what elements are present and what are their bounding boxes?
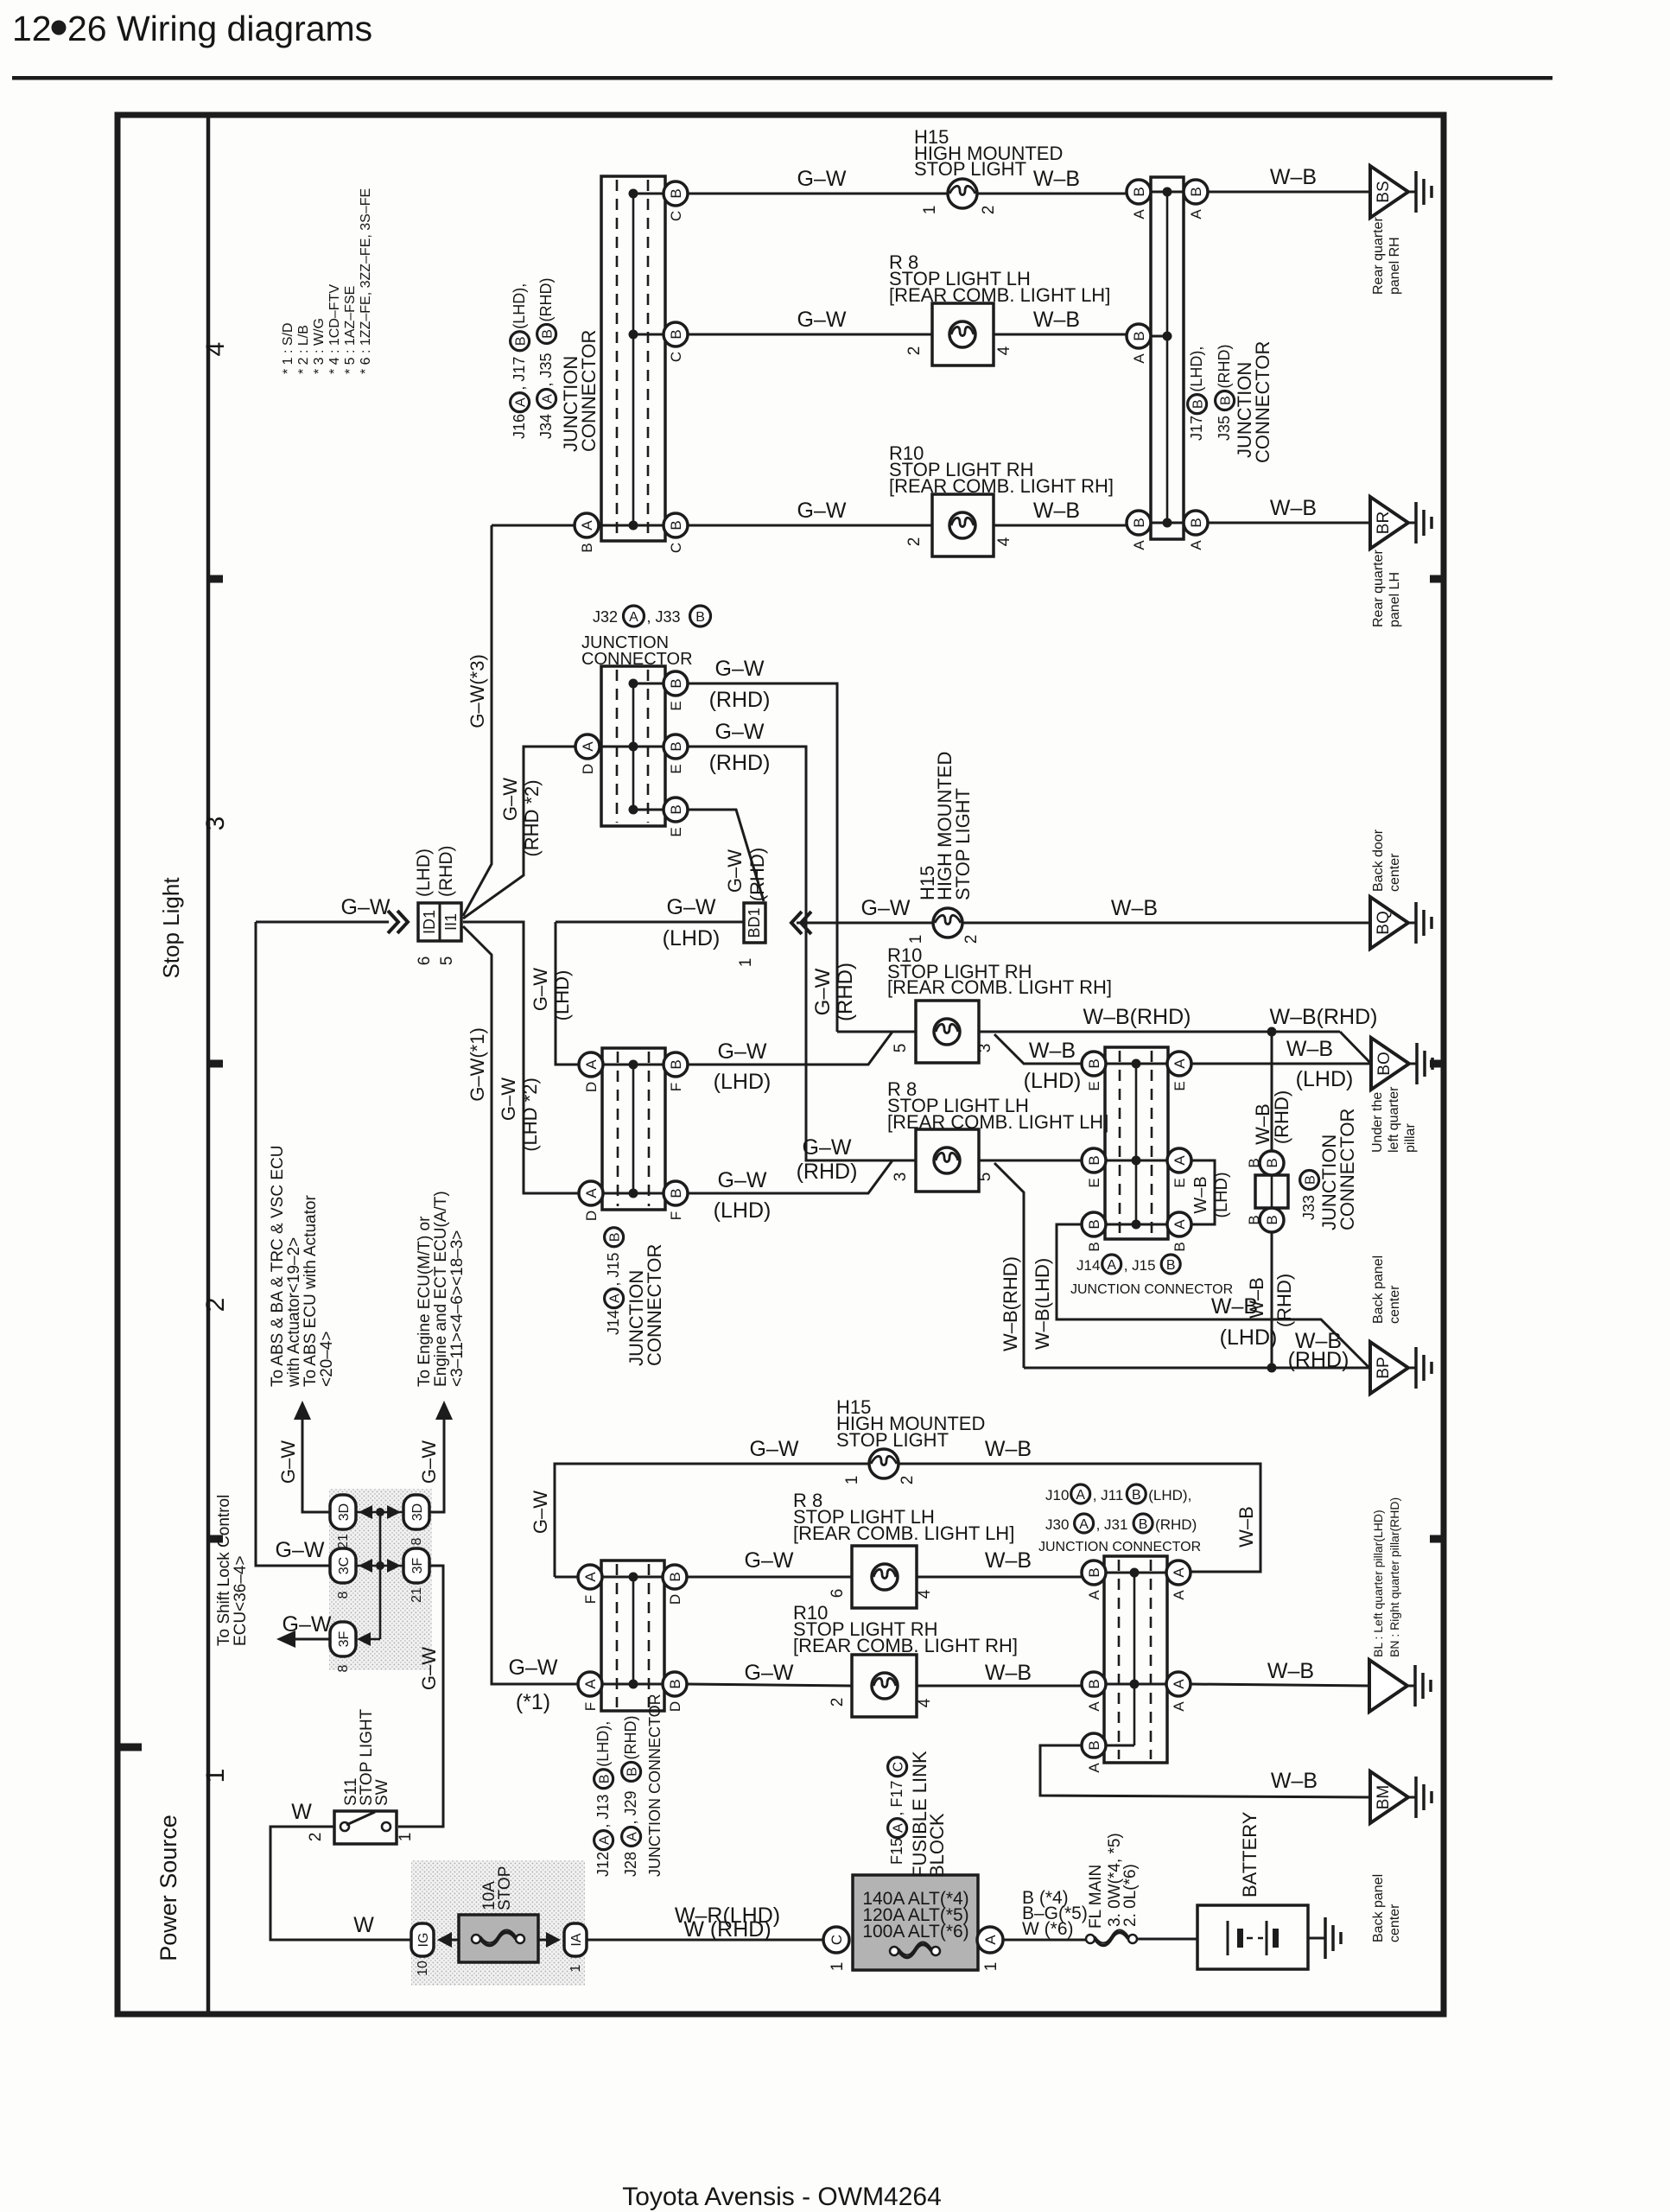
pin B (A) s4r row3 right [1184, 511, 1208, 550]
pin number 5 II1 [438, 957, 456, 966]
svg-text:A: A [1076, 1488, 1085, 1503]
label W-B(RHD) R10m [1083, 1005, 1191, 1029]
svg-text:A: A [579, 520, 595, 531]
wire battery to earth [1308, 1937, 1325, 1940]
fusible link FL MAIN [1086, 1930, 1137, 1946]
wire W-B s2 R10 [917, 1685, 1082, 1688]
svg-text:J33: J33 [1300, 1195, 1318, 1220]
label CONNECTOR s3 left [644, 1244, 665, 1366]
wire G-W s4 H15 [688, 193, 948, 195]
label G-W RHD vert1 [811, 963, 857, 1021]
svg-text:F: F [582, 1595, 599, 1604]
svg-text:B: B [1086, 1740, 1102, 1750]
stop light R8 s2 box [852, 1546, 917, 1608]
shaded area fuse [411, 1860, 585, 1986]
svg-text:W–B(LHD): W–B(LHD) [1032, 1258, 1053, 1350]
svg-text:G–W: G–W [745, 1548, 794, 1573]
svg-text:, J33: , J33 [646, 608, 680, 626]
pin number 4 s2 R10 [916, 1698, 934, 1707]
pin B (C) s4 row1 [664, 181, 688, 221]
label FL MAIN [1087, 1865, 1105, 1929]
wire W-B LHD from R8m [979, 1160, 1082, 1162]
svg-text:J17: J17 [1188, 416, 1205, 441]
label G-W riser s2 [530, 1491, 551, 1534]
pin number 1 BD1 [737, 958, 755, 968]
svg-text:BL : Left quarter pillar(LHD): BL : Left quarter pillar(LHD) [1371, 1510, 1385, 1657]
svg-text:6: 6 [416, 957, 434, 966]
row stub s2r r2 [1094, 1683, 1178, 1686]
arrow pair 3C/3F row [355, 1559, 404, 1573]
svg-text:(RHD): (RHD) [1216, 345, 1233, 389]
svg-text:C: C [668, 211, 684, 221]
svg-text:pillar: pillar [1403, 1123, 1418, 1153]
wire W switch left [270, 1827, 412, 1940]
label J30/J31 [1045, 1514, 1197, 1533]
row stub J14s3 r1 [591, 1064, 676, 1066]
svg-text:(LHD),: (LHD), [1148, 1487, 1191, 1503]
svg-text:left quarter: left quarter [1387, 1086, 1401, 1153]
svg-text:8: 8 [336, 1664, 351, 1672]
arrow into 3F bottom [357, 1632, 380, 1646]
svg-text:E: E [1172, 1178, 1188, 1187]
svg-text:B: B [1086, 1058, 1102, 1068]
wire W-B s4 R10 [994, 524, 1127, 527]
connector ID1/II1 body [418, 903, 461, 941]
label G-W s4 R8 [797, 308, 847, 332]
svg-text:B: B [1172, 1242, 1188, 1251]
svg-text:(LHD): (LHD) [1220, 1325, 1278, 1350]
label 2.0L [1121, 1864, 1140, 1927]
label J10/J11 [1045, 1484, 1191, 1503]
svg-text:G–W: G–W [498, 1077, 519, 1121]
svg-text:21: 21 [410, 1587, 424, 1603]
pin B (E) J32 r1 [664, 671, 688, 711]
svg-text:5: 5 [892, 1044, 910, 1053]
svg-text:G–W: G–W [509, 1656, 558, 1680]
svg-text:(RHD): (RHD) [436, 846, 456, 897]
svg-text:3D: 3D [410, 1503, 425, 1521]
svg-text:(LHD): (LHD) [714, 1070, 772, 1094]
wire G-W(*3) riser [463, 525, 492, 916]
svg-text:W–B(RHD): W–B(RHD) [1083, 1005, 1191, 1029]
svg-text:2: 2 [898, 1476, 917, 1485]
svg-text:, F17: , F17 [888, 1781, 905, 1816]
label JUNCTION CONNECTOR s2l [646, 1694, 664, 1877]
svg-text:CONNECTOR: CONNECTOR [644, 1244, 665, 1366]
row stub s3r r1 [1094, 1063, 1179, 1065]
svg-text:B: B [1188, 518, 1204, 527]
pin number 4 s4 R10 [995, 537, 1013, 546]
wire W-B s2 R8 [917, 1576, 1082, 1579]
svg-text:G–W: G–W [797, 308, 847, 332]
svg-text:(LHD *2): (LHD *2) [519, 1077, 541, 1152]
svg-text:3C: 3C [337, 1557, 352, 1574]
caption H15 middle [917, 752, 974, 900]
row stub s2r r3 [1094, 1745, 1134, 1747]
pin B (B) J33 top [1246, 1151, 1284, 1175]
label 3.0W [1106, 1833, 1124, 1927]
wire W-B RHD branch R8m [994, 1163, 1024, 1368]
wire FL MAIN to battery [1137, 1938, 1197, 1941]
svg-text:W: W [291, 1800, 312, 1824]
bulb R10 middle [934, 1019, 960, 1045]
svg-text:D: D [667, 1594, 683, 1605]
label W-B LHD branch [1024, 1039, 1082, 1093]
label W-B s2 R8 [985, 1548, 1032, 1573]
svg-text:JUNCTION CONNECTOR: JUNCTION CONNECTOR [646, 1694, 664, 1877]
svg-text:, J29: , J29 [622, 1790, 639, 1824]
svg-text:(RHD): (RHD) [709, 688, 771, 712]
svg-text:4: 4 [201, 342, 230, 357]
svg-text:W–B: W–B [985, 1661, 1032, 1685]
label J14/J15 s3 column [605, 1228, 624, 1335]
svg-text:FL MAIN: FL MAIN [1087, 1865, 1105, 1929]
label JUNCTION s4 left [560, 356, 581, 452]
svg-text:A: A [514, 397, 529, 407]
junction connector J32/J33 dashed lines [617, 670, 648, 823]
label G-W left loop [276, 1538, 325, 1562]
wire G-W RHD row1 [688, 683, 837, 1032]
header rule [12, 76, 1553, 80]
svg-text:C: C [668, 543, 684, 553]
pin B (E) J32 r2 [664, 734, 688, 774]
svg-text:J34: J34 [537, 414, 555, 439]
wire W-B RHD to BP [1024, 1367, 1370, 1370]
label W-B s4 R10 [1033, 499, 1080, 523]
bulb R8 s2 [872, 1564, 898, 1590]
svg-text:B: B [1264, 1215, 1280, 1224]
pin number 1 s4 H15 [921, 206, 939, 215]
label G-W RHD row1 [709, 657, 771, 712]
svg-text:(RHD): (RHD) [1273, 1274, 1295, 1327]
svg-text:G–W: G–W [797, 499, 847, 523]
label W-B RHD low [1246, 1274, 1295, 1327]
svg-text:2: 2 [962, 935, 981, 944]
label G-W H15m [861, 896, 911, 920]
svg-text:A: A [1171, 1701, 1187, 1712]
pin B (F) J14s3 r2 [664, 1181, 688, 1220]
svg-text:, J17: , J17 [511, 357, 528, 391]
ground BQ [1370, 897, 1432, 949]
svg-text:B: B [541, 329, 556, 339]
label Rear quarter panel RH [1371, 217, 1402, 295]
wire G-W s2 R8 [687, 1576, 852, 1579]
svg-text:B: B [608, 1232, 623, 1242]
wire G-W up to ABS ECU [294, 1401, 331, 1512]
svg-text:BS: BS [1375, 181, 1393, 202]
stop light R8 s4 box [932, 303, 994, 365]
svg-text:B: B [668, 188, 684, 198]
svg-text:A: A [892, 1823, 906, 1833]
svg-text:[REAR COMB. LIGHT RH]: [REAR COMB. LIGHT RH] [889, 475, 1114, 497]
pin A (F) s2l r1 [578, 1565, 602, 1604]
svg-text:To Shift Lock Control: To Shift Lock Control [215, 1495, 233, 1646]
label G-W ID1 [341, 895, 391, 919]
label W-B BR [1270, 496, 1317, 520]
margin label Power Source [156, 1815, 181, 1961]
row stub s4r row2 [1139, 335, 1167, 338]
svg-text:Back panel: Back panel [1371, 1874, 1386, 1942]
svg-text:4: 4 [995, 537, 1013, 546]
svg-text:W–B: W–B [1235, 1506, 1257, 1548]
svg-text:B: B [1086, 1219, 1102, 1229]
wire G-W feed s4 R10 [492, 524, 575, 527]
svg-text:A: A [1131, 353, 1147, 364]
junction connector s2 right dashed [1119, 1560, 1151, 1759]
svg-text:A: A [1188, 540, 1204, 550]
battery body [1197, 1905, 1308, 1969]
svg-text:W–B: W–B [1191, 1176, 1210, 1213]
stop light R10 s4 box [932, 494, 994, 556]
svg-text:1: 1 [568, 1964, 583, 1972]
svg-text:B: B [668, 678, 684, 688]
svg-text:2: 2 [905, 346, 924, 356]
svg-text:W–B: W–B [1029, 1039, 1076, 1063]
svg-text:(RHD): (RHD) [1288, 1348, 1349, 1372]
pin B (E) s3r r1 [1082, 1052, 1106, 1091]
junction connector J14/J15 s3 dashed [618, 1052, 649, 1206]
label G-W s4 H15 [797, 167, 847, 191]
label BLOCK [926, 1813, 948, 1878]
label To Shift Lock text [215, 1495, 250, 1646]
ground BR [1370, 497, 1432, 549]
label W-B s2 H15 [985, 1437, 1032, 1461]
svg-text:BLOCK: BLOCK [926, 1813, 948, 1878]
svg-text:, J35: , J35 [537, 353, 555, 386]
svg-text:J32: J32 [593, 608, 618, 626]
wire G-W BD1 to H15m [797, 922, 933, 925]
label J32/J33 [593, 606, 711, 626]
svg-text:[REAR COMB. LIGHT LH]: [REAR COMB. LIGHT LH] [887, 1111, 1108, 1133]
label W-B riser s2 [1235, 1506, 1257, 1548]
pin B (C) s4 row3 [664, 513, 688, 553]
svg-text:* 5 : 1AZ–FSE: * 5 : 1AZ–FSE [343, 286, 358, 374]
label W-B LHD BO [1286, 1037, 1353, 1091]
wire W-B to BL/BN [1191, 1684, 1369, 1686]
svg-text:3: 3 [976, 1044, 994, 1053]
svg-text:3F: 3F [337, 1630, 352, 1647]
ground BO [1371, 1038, 1432, 1090]
svg-text:STOP LIGHT: STOP LIGHT [952, 788, 974, 900]
svg-text:A: A [1172, 1155, 1188, 1166]
svg-text:A: A [1131, 540, 1147, 550]
svg-text:D: D [583, 1211, 600, 1221]
svg-text:A: A [598, 1835, 613, 1845]
svg-text:A: A [1172, 1058, 1188, 1069]
svg-text:CONNECTOR: CONNECTOR [578, 330, 600, 452]
svg-text:W–B(RHD): W–B(RHD) [1000, 1256, 1021, 1351]
zone number 4 [201, 342, 230, 357]
junction connector J32/J33 body [601, 666, 665, 826]
svg-text:3D: 3D [337, 1503, 352, 1521]
right border tick at BO [1430, 1060, 1445, 1068]
svg-text:B: B [1139, 1517, 1148, 1532]
svg-text:B: B [668, 1188, 684, 1198]
svg-text:W–B: W–B [1270, 496, 1317, 520]
label G-W s2 R8 [745, 1548, 794, 1573]
pin number 2 s4 H15 [980, 206, 998, 215]
svg-text:(LHD): (LHD) [551, 970, 573, 1021]
svg-text:Back panel: Back panel [1371, 1255, 1386, 1324]
svg-text:D: D [667, 1701, 683, 1712]
notes list *1-*6 [281, 188, 373, 374]
svg-text:A: A [629, 610, 638, 625]
svg-text:(LHD): (LHD) [714, 1198, 772, 1223]
wire riser BD1 to J14/J15 [556, 922, 579, 1065]
wire G-W RHD row2 [688, 747, 916, 1160]
junction connector s2 right body [1104, 1556, 1167, 1763]
margin partition line [206, 112, 211, 2014]
svg-text:G–W: G–W [750, 1437, 799, 1461]
svg-text:(RHD *2): (RHD *2) [521, 779, 543, 856]
wire W-B RHD drop from dot [1271, 1032, 1273, 1152]
pin B (A) s4r row2 left [1127, 324, 1151, 364]
svg-text:8: 8 [336, 1591, 351, 1599]
svg-text:II1: II1 [442, 913, 460, 931]
svg-text:JUNCTION CONNECTOR: JUNCTION CONNECTOR [1070, 1282, 1233, 1297]
svg-text:(RHD): (RHD) [1155, 1516, 1197, 1533]
svg-text:ID1: ID1 [421, 910, 438, 934]
svg-text:JUNCTION CONNECTOR: JUNCTION CONNECTOR [1038, 1540, 1201, 1554]
caption R8 middle [887, 1078, 1108, 1133]
svg-text:center: center [1387, 853, 1402, 892]
wire s2l r1 stub [555, 1576, 578, 1579]
svg-text:2: 2 [980, 206, 998, 215]
pin number 1 s2 H15 [843, 1476, 861, 1485]
caption R8 s2 [793, 1490, 1014, 1544]
svg-text:<20–4>: <20–4> [318, 1332, 336, 1387]
zone number 2 [201, 1298, 230, 1313]
pin number 5 R10m [892, 1044, 910, 1053]
svg-text:Power Source: Power Source [156, 1815, 181, 1961]
svg-text:G–W: G–W [530, 1491, 551, 1534]
svg-text:F: F [668, 1083, 684, 1091]
svg-text:, J15: , J15 [1124, 1257, 1156, 1274]
svg-text:A: A [582, 1572, 599, 1582]
svg-text:CONNECTOR: CONNECTOR [1252, 341, 1273, 463]
pin A (A) s2r r2 [1166, 1672, 1191, 1712]
svg-text:F: F [582, 1702, 599, 1711]
chevron into BD1 [791, 912, 811, 934]
svg-text:4: 4 [995, 346, 1013, 355]
svg-text:1: 1 [737, 958, 755, 968]
caption R8 s4 [889, 251, 1110, 306]
svg-text:3: 3 [201, 817, 230, 831]
label BL BN text [1371, 1497, 1401, 1657]
chevron into ID1 [388, 911, 408, 933]
caption H15 s4 [914, 126, 1063, 180]
svg-text:(*1): (*1) [516, 1690, 550, 1714]
svg-text:12: 12 [12, 9, 52, 48]
row stub H15 [633, 193, 676, 195]
svg-text:IG: IG [416, 1933, 431, 1948]
svg-text:2. 0L(*6): 2. 0L(*6) [1121, 1864, 1140, 1927]
wire B to FL MAIN [1003, 1939, 1086, 1942]
svg-text:BM: BM [1375, 1785, 1393, 1810]
svg-text:(LHD): (LHD) [663, 926, 721, 950]
wire G-W RHD into R10m [837, 1031, 916, 1033]
svg-text:C: C [668, 352, 684, 362]
svg-text:G–W: G–W [718, 1168, 767, 1192]
junction connector J14/J15 s3 body [602, 1048, 665, 1210]
svg-text:* 3 : W/G: * 3 : W/G [312, 318, 327, 374]
label JUNCTION CONNECTOR s3r [1070, 1282, 1233, 1297]
svg-text:(RHD): (RHD) [746, 848, 768, 901]
label JUNCTION CONNECTOR s2r [1038, 1540, 1201, 1554]
wire W-B RHD from R10m [979, 1027, 1340, 1037]
pin A (B) s3r r3 [1167, 1212, 1191, 1252]
pin 3F bottom [330, 1622, 356, 1672]
svg-text:A: A [582, 1679, 599, 1689]
junction connector s2 left body [601, 1560, 664, 1711]
caption H15 s2 [836, 1396, 985, 1451]
zone number 3 [201, 817, 230, 831]
svg-text:10: 10 [416, 1961, 430, 1976]
wire G-W LHD to R8m [688, 1160, 892, 1193]
junction connector J16/J34 dashed lines [617, 180, 648, 537]
pin number 6 ID1 [416, 957, 434, 966]
svg-text:W–B: W–B [1111, 896, 1158, 920]
wire G-W s2 R10 [687, 1684, 852, 1686]
wire G-W RHD*2 riser [463, 747, 575, 918]
label Back panel center s3 [1371, 1255, 1402, 1324]
svg-text:G–W: G–W [283, 1612, 332, 1637]
svg-text:1: 1 [907, 935, 925, 944]
label BATTERY [1239, 1811, 1260, 1897]
pin number 2 S11 [307, 1833, 325, 1842]
svg-text:B: B [1304, 1175, 1318, 1185]
row stub s2r r1 [1094, 1572, 1178, 1574]
svg-text:STOP: STOP [496, 1866, 514, 1910]
label G-W(*1) at s2l [509, 1656, 558, 1714]
svg-text:1: 1 [982, 1962, 1000, 1972]
svg-text:B: B [579, 543, 595, 552]
wire W-B s4 R8 [994, 334, 1127, 336]
svg-text:B: B [1219, 396, 1234, 405]
wire U jumper s3r [1191, 1160, 1215, 1224]
fusible link element [890, 1942, 940, 1958]
svg-text:A: A [1171, 1567, 1187, 1578]
ground BM [1370, 1771, 1432, 1823]
svg-text:J14: J14 [605, 1310, 622, 1335]
label JUNCTION CONNECTOR J32 [581, 633, 693, 669]
label W lower [353, 1913, 374, 1937]
svg-text:W–B: W–B [985, 1548, 1032, 1573]
pin B (D) s2l r1 [663, 1565, 687, 1605]
pin A (D) J14s3 r1 [579, 1052, 603, 1092]
label B (*4) [1022, 1888, 1088, 1939]
wire W-B s2 H15 [898, 1464, 1260, 1572]
label Back door center [1371, 829, 1402, 892]
margin label Stop Light [158, 877, 184, 979]
svg-text:J28: J28 [622, 1852, 639, 1877]
junction connector s2 left dashed [617, 1564, 649, 1707]
label G-W s2 R10 [745, 1661, 794, 1685]
battery earth [1325, 1917, 1341, 1959]
diagram outer border [117, 115, 1444, 2014]
label W-B BP [1288, 1329, 1349, 1372]
svg-text:A: A [982, 1935, 999, 1945]
svg-text:Toyota Avensis - OWM4264: Toyota Avensis - OWM4264 [622, 2183, 942, 2211]
wire G-W(*1) dropper [463, 926, 578, 1684]
pin A (F) s2l r2 [578, 1672, 602, 1711]
svg-text:G–W(*1): G–W(*1) [467, 1027, 488, 1102]
ground BS [1370, 166, 1432, 218]
wire G-W into ID1 [256, 921, 389, 924]
svg-text:with Actuator<19–2>: with Actuator<19–2> [285, 1237, 303, 1388]
pin A (E) s3r r1 [1167, 1052, 1191, 1091]
svg-text:B: B [1246, 1215, 1262, 1224]
